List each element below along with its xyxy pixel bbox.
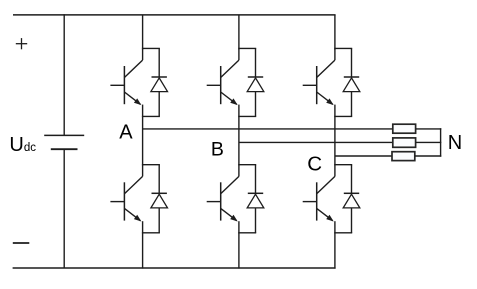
label: + (positive DC terminal) xyxy=(16,38,27,49)
svg-text:N: N xyxy=(448,132,462,154)
wire: top bus drop for phase A leg xyxy=(142,15,144,50)
wire: phase B output line xyxy=(239,141,393,143)
wire: upper cell bottom rail from diode D3 xyxy=(238,115,256,117)
wire: RA to neutral bar xyxy=(416,128,442,130)
transistor Q5 (C-phase upper IGBT) xyxy=(303,48,335,105)
wire: DC link from top bus to battery + xyxy=(63,14,65,135)
wire: DC link from battery - to bottom bus xyxy=(63,149,65,268)
wire: upper cell top rail to diode D1 xyxy=(143,47,160,49)
resistor RB (phase B load) xyxy=(393,138,416,147)
wire: phase A leg midpoint vertical (node A) xyxy=(142,105,144,166)
wire: lower cell top rail to diode D2 xyxy=(143,164,160,166)
wire: positive DC bus (top rail) xyxy=(13,14,336,16)
wire: lower cell top rail to diode D6 xyxy=(335,164,352,166)
diode D4 (freewheeling, antiparallel with Q4) xyxy=(247,165,264,233)
transistor Q2 (A-phase lower IGBT) xyxy=(110,164,142,222)
wire: lower cell top rail to diode D4 xyxy=(239,164,256,166)
svg-text:C: C xyxy=(307,152,322,175)
svg-text:Udc: Udc xyxy=(9,134,36,156)
wire: phase B leg to bottom bus xyxy=(238,221,240,268)
diode D3 (freewheeling, antiparallel with Q3) xyxy=(247,48,264,116)
wire: lower cell bottom rail from diode D4 xyxy=(238,232,256,234)
transistor Q1 (A-phase upper IGBT) xyxy=(110,48,142,105)
wire: phase A leg to bottom bus xyxy=(142,221,144,268)
svg-text:B: B xyxy=(211,138,224,160)
diode D2 (freewheeling, antiparallel with Q2) xyxy=(151,165,168,233)
wire: phase C leg to bottom bus xyxy=(334,221,336,268)
wire: phase B leg midpoint vertical (node B) xyxy=(238,105,240,166)
diode D6 (freewheeling, antiparallel with Q6) xyxy=(343,165,360,233)
svg-text:A: A xyxy=(119,122,133,144)
wire: upper cell top rail to diode D3 xyxy=(239,47,256,49)
wire: top bus drop for phase C leg xyxy=(334,15,336,50)
battery Udc (DC voltage source) xyxy=(44,135,84,149)
wire: phase A output line xyxy=(143,128,393,130)
diode D1 (freewheeling, antiparallel with Q1) xyxy=(151,48,168,116)
wire: phase C output line xyxy=(335,155,392,157)
wire: lower cell bottom rail from diode D2 xyxy=(142,232,160,234)
resistor RA (phase A load) xyxy=(393,124,416,133)
wire: upper cell bottom rail from diode D5 xyxy=(334,115,352,117)
wire: negative DC bus (bottom rail) xyxy=(13,267,336,269)
label: - (negative DC terminal) xyxy=(13,242,30,244)
transistor Q6 (C-phase lower IGBT) xyxy=(303,164,335,222)
transistor Q3 (B-phase upper IGBT) xyxy=(207,48,239,105)
wire: upper cell top rail to diode D5 xyxy=(335,47,352,49)
resistor RC (phase C load) xyxy=(392,152,415,161)
wire: neutral tie bar (node N) xyxy=(440,128,442,157)
wire: RC to neutral bar xyxy=(415,155,442,157)
wire: RB to neutral bar xyxy=(416,141,442,143)
diode D5 (freewheeling, antiparallel with Q5) xyxy=(343,48,360,116)
wire: top bus drop for phase B leg xyxy=(238,15,240,50)
wire: lower cell bottom rail from diode D6 xyxy=(334,232,352,234)
wire: phase C leg midpoint vertical (node C) xyxy=(334,105,336,166)
transistor Q4 (B-phase lower IGBT) xyxy=(207,164,239,222)
wire: upper cell bottom rail from diode D1 xyxy=(142,115,160,117)
